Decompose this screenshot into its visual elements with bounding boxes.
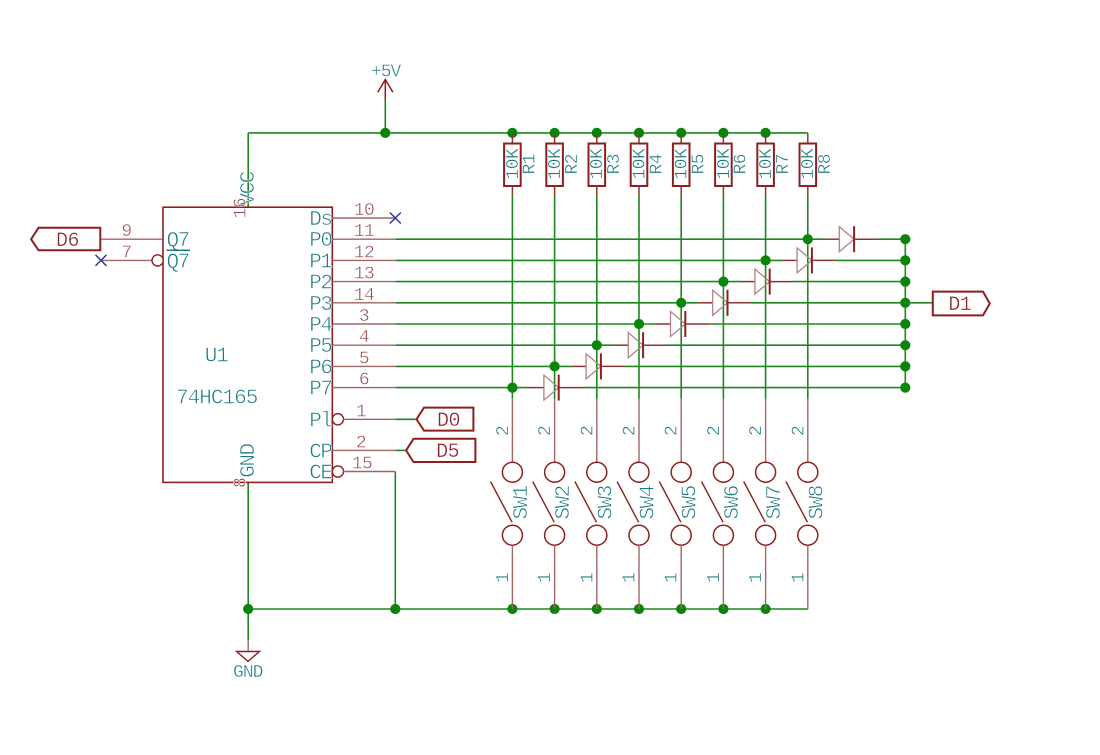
wire net P7 left segment <box>395 387 529 389</box>
diode on net P6 (column 2) <box>572 353 625 379</box>
svg-text:P7: P7 <box>309 379 331 402</box>
wire to flag D1 <box>905 302 933 304</box>
svg-text:1: 1 <box>789 573 809 583</box>
junction dot P7 at column 1 <box>507 383 517 393</box>
svg-text:D6: D6 <box>56 230 79 253</box>
svg-text:15: 15 <box>352 455 373 475</box>
switch SW1 <box>491 399 534 609</box>
switch SW7 <box>744 399 787 609</box>
resistor R6 10K <box>715 133 752 195</box>
junction dot top rail R6 <box>718 128 728 138</box>
pin P1 (12) of U1 <box>309 243 395 274</box>
diode on net P3 (column 5) <box>698 290 751 316</box>
svg-text:GND: GND <box>233 663 263 683</box>
junction dot ground rail SW7 <box>761 604 771 614</box>
resistor R4 10K <box>630 133 667 195</box>
resistor R1 10K <box>504 133 541 195</box>
junction dot P2 at column 6 <box>718 277 728 287</box>
svg-text:P1: P1 <box>309 251 332 274</box>
svg-text:P4: P4 <box>309 315 332 338</box>
no-connect X on pin Ds <box>390 213 401 224</box>
svg-text:1: 1 <box>536 573 556 583</box>
svg-text:P3: P3 <box>309 294 332 317</box>
svg-text:5: 5 <box>359 349 369 369</box>
svg-text:13: 13 <box>354 265 375 285</box>
wire net P5 left segment <box>395 344 614 346</box>
junction dot P1 at column 7 <box>761 255 771 265</box>
svg-text:R4: R4 <box>647 154 667 175</box>
svg-text:10: 10 <box>354 201 375 221</box>
wire U1 pin 8 to ground rail <box>247 482 249 609</box>
svg-text:2: 2 <box>578 426 598 436</box>
svg-text:1: 1 <box>578 573 598 583</box>
wire column net R8/SW8 <box>807 195 809 398</box>
svg-text:U1: U1 <box>205 346 229 369</box>
pin GND (8) of U1 <box>232 443 262 488</box>
wire net P7 right segment <box>583 387 906 389</box>
pin Ds (10) of U1 <box>309 201 395 232</box>
junction dot ground rail SW5 <box>676 604 686 614</box>
switch SW8 <box>786 399 829 609</box>
svg-text:16: 16 <box>232 198 252 219</box>
resistor R7 10K <box>757 133 794 195</box>
svg-text:1: 1 <box>621 573 641 583</box>
svg-text:R1: R1 <box>521 154 541 175</box>
junction dot top rail R7 <box>761 128 771 138</box>
junction dot ground rail at CE <box>390 604 400 614</box>
svg-text:Q7: Q7 <box>167 251 189 274</box>
svg-text:74HC165: 74HC165 <box>176 387 258 410</box>
op IC U1 74HC165 body <box>163 207 332 482</box>
diode on net P1 (column 7) <box>783 247 836 273</box>
pin CP (2) of U1 <box>309 433 395 464</box>
junction dot P6 at column 2 <box>550 361 560 371</box>
resistor R8 10K <box>799 133 836 195</box>
wire PL to flag D0 <box>395 418 416 420</box>
wire VCC drop to U1 pin 16 <box>247 133 249 207</box>
junction dot +5V on top rail <box>380 128 390 138</box>
svg-text:1: 1 <box>705 573 725 583</box>
svg-text:P0: P0 <box>309 230 332 253</box>
svg-text:14: 14 <box>354 286 375 306</box>
svg-text:2: 2 <box>747 426 767 436</box>
wire net P2 right segment <box>794 281 906 283</box>
svg-text:P2: P2 <box>309 273 332 296</box>
wire column net R7/SW7 <box>765 195 767 398</box>
svg-text:4: 4 <box>359 328 369 348</box>
junction dot P0 at column 8 <box>803 234 813 244</box>
wire net P0 left segment <box>395 238 825 240</box>
junction dot ground rail SW3 <box>592 604 602 614</box>
svg-text:R2: R2 <box>563 154 583 175</box>
svg-text:GND: GND <box>238 443 261 477</box>
switch SW4 <box>617 399 660 609</box>
junction dot right bus P4 <box>900 319 910 329</box>
svg-text:R3: R3 <box>605 154 625 175</box>
wire column net R2/SW2 <box>554 195 556 398</box>
svg-text:Ds: Ds <box>309 209 331 232</box>
junction dot ground rail SW4 <box>634 604 644 614</box>
wire column net R4/SW4 <box>638 195 640 398</box>
pin P2 (13) of U1 <box>309 265 395 296</box>
pin /Q7 (7) of U1 with bubble and no-connect <box>101 243 190 274</box>
wire ground rail to GND symbol <box>247 609 249 641</box>
svg-text:2: 2 <box>705 426 725 436</box>
svg-text:1: 1 <box>663 573 683 583</box>
switch SW6 <box>702 399 745 609</box>
svg-text:SW7: SW7 <box>764 486 787 519</box>
svg-text:8: 8 <box>232 478 252 488</box>
wire net P4 right segment <box>709 323 905 325</box>
diode on net P0 (column 8) <box>825 226 878 252</box>
wire CP to flag D5 <box>395 449 406 451</box>
svg-text:12: 12 <box>354 243 375 263</box>
svg-text:2: 2 <box>356 433 366 453</box>
junction dot P5 at column 3 <box>592 340 602 350</box>
pin VCC (16) of U1 <box>232 171 262 218</box>
junction dot right bus P0 <box>900 234 910 244</box>
no-connect X on pin /Q7 <box>96 255 107 266</box>
junction dot ground rail SW2 <box>550 604 560 614</box>
wire net P2 left segment <box>395 281 740 283</box>
wire CE to ground rail <box>394 472 396 610</box>
svg-text:R8: R8 <box>816 154 836 175</box>
wire net P3 left segment <box>395 302 698 304</box>
svg-text:D0: D0 <box>437 410 460 433</box>
svg-text:SW3: SW3 <box>595 485 618 519</box>
wire net P6 right segment <box>625 365 906 367</box>
svg-text:11: 11 <box>354 222 375 242</box>
wire net P1 left segment <box>395 259 782 261</box>
ground symbol GND <box>247 640 249 651</box>
junction dot ground rail SW6 <box>718 604 728 614</box>
pin P5 (4) of U1 <box>309 328 395 359</box>
pin P0 (11) of U1 <box>309 222 395 253</box>
svg-text:SW8: SW8 <box>806 485 829 519</box>
resistor R2 10K <box>546 133 583 195</box>
junction dot right bus P6 <box>900 361 910 371</box>
wire +5V stem to top rail <box>384 101 386 133</box>
junction dot P4 at column 4 <box>634 319 644 329</box>
switch SW3 <box>575 399 618 609</box>
svg-text:2: 2 <box>621 426 641 436</box>
junction dot right bus P2 <box>900 277 910 287</box>
wire top +5V rail <box>248 132 808 134</box>
net flag D6 <box>31 228 100 253</box>
svg-text:R5: R5 <box>690 154 710 175</box>
net flag D1 <box>933 292 990 317</box>
pin PL (1) of U1 with bubble <box>309 402 395 433</box>
diode on net P2 (column 6) <box>741 269 794 295</box>
pin P4 (3) of U1 <box>309 307 395 338</box>
svg-text:SW1: SW1 <box>511 485 534 519</box>
junction dot top rail R4 <box>634 128 644 138</box>
pin P3 (14) of U1 <box>309 286 395 317</box>
wire column net R3/SW3 <box>596 195 598 398</box>
svg-text:D5: D5 <box>436 441 459 464</box>
wire bottom ground rail <box>248 608 808 610</box>
svg-text:P6: P6 <box>309 357 332 380</box>
resistor R3 10K <box>588 133 625 195</box>
pin CE (15) of U1 with bubble <box>309 455 395 486</box>
wire right vertical bus <box>904 239 906 387</box>
svg-text:CE: CE <box>309 463 332 486</box>
wire net P6 left segment <box>395 365 571 367</box>
wire net P5 right segment <box>667 344 905 346</box>
svg-text:SW4: SW4 <box>638 485 661 519</box>
svg-text:7: 7 <box>121 243 131 263</box>
svg-text:3: 3 <box>359 307 369 327</box>
svg-text:SW2: SW2 <box>553 485 576 519</box>
junction dot right bus P7 <box>900 383 910 393</box>
pin Q7 (9) of U1 <box>100 222 188 253</box>
wire column net R6/SW6 <box>722 195 724 398</box>
pin P6 (5) of U1 <box>309 349 395 380</box>
junction dot top rail R2 <box>550 128 560 138</box>
diode on net P4 (column 4) <box>656 311 709 337</box>
+5V supply symbol <box>378 80 393 101</box>
switch SW2 <box>533 399 576 609</box>
wire net P1 right segment <box>836 259 906 261</box>
svg-text:6: 6 <box>359 371 369 391</box>
junction dot right bus P3 <box>900 298 910 308</box>
wire column net R5/SW5 <box>680 195 682 398</box>
junction dot top rail R3 <box>592 128 602 138</box>
svg-text:2: 2 <box>663 426 683 436</box>
wire net P4 left segment <box>395 323 656 325</box>
svg-text:1: 1 <box>747 573 767 583</box>
wire net P0 right segment <box>878 238 905 240</box>
svg-text:2: 2 <box>789 426 809 436</box>
net flag D5 <box>406 439 475 464</box>
svg-text:+5V: +5V <box>371 63 402 83</box>
wire column net R1/SW1 <box>511 195 513 398</box>
junction dot P3 at column 5 <box>676 298 686 308</box>
pin P7 (6) of U1 <box>309 371 395 402</box>
svg-text:SW6: SW6 <box>722 485 745 519</box>
svg-text:2: 2 <box>494 426 514 436</box>
diode on net P7 (column 1) <box>530 375 583 401</box>
svg-text:Pl: Pl <box>309 410 332 433</box>
svg-text:SW5: SW5 <box>680 485 703 519</box>
net flag D0 <box>417 408 474 433</box>
junction dot right bus P5 <box>900 340 910 350</box>
svg-text:R7: R7 <box>774 154 794 175</box>
junction dot top rail R1 <box>507 128 517 138</box>
junction dot ground rail at GND <box>243 604 253 614</box>
svg-text:P5: P5 <box>309 336 332 359</box>
junction dot top rail R5 <box>676 128 686 138</box>
wire net P3 right segment <box>751 302 905 304</box>
svg-text:1: 1 <box>494 573 514 583</box>
junction dot ground rail SW1 <box>507 604 517 614</box>
diode on net P5 (column 3) <box>614 332 667 358</box>
svg-text:D1: D1 <box>948 294 972 317</box>
svg-text:CP: CP <box>309 441 332 464</box>
resistor R5 10K <box>673 133 710 195</box>
svg-text:9: 9 <box>121 222 131 242</box>
svg-text:2: 2 <box>536 426 556 436</box>
svg-text:1: 1 <box>356 402 366 422</box>
switch SW5 <box>659 399 702 609</box>
junction dot right bus P1 <box>900 255 910 265</box>
svg-text:R6: R6 <box>732 154 752 175</box>
